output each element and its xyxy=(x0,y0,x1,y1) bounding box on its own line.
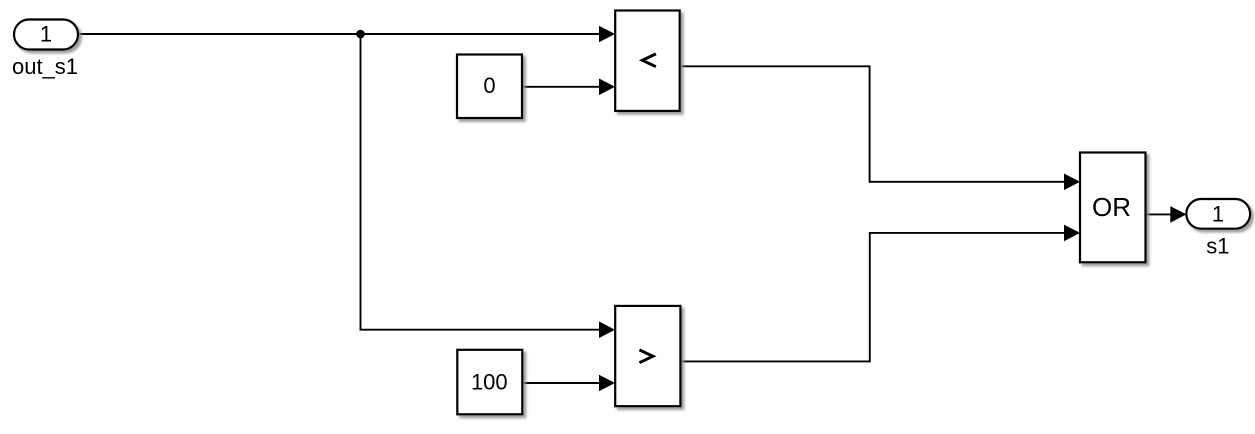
svg-text:s1: s1 xyxy=(1206,234,1229,259)
svg-text:1: 1 xyxy=(40,22,52,47)
svg-text:100: 100 xyxy=(471,370,508,395)
svg-text:out_s1: out_s1 xyxy=(12,54,78,79)
svg-text:OR: OR xyxy=(1092,192,1131,222)
svg-text:1: 1 xyxy=(1212,202,1224,227)
svg-text:0: 0 xyxy=(483,73,495,98)
